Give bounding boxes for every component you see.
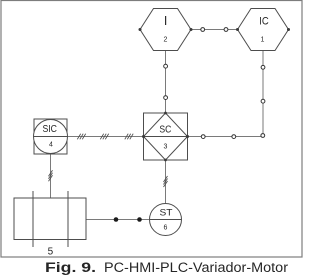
hexagon I (element 2): [140, 9, 191, 51]
svg-text:6: 6: [164, 225, 168, 232]
motor block (element 5): rectangle with two brush lines: [14, 191, 86, 247]
vertex dot bottom of SC diamond: [164, 159, 167, 162]
SC block (element 3): square with inscribed diamond: [144, 113, 188, 160]
hexagon IC (element 1): [238, 9, 289, 51]
svg-text:ST: ST: [160, 208, 173, 218]
svg-text:PC-HMI-PLC-Variador-Motor: PC-HMI-PLC-Variador-Motor: [104, 260, 289, 275]
wire SC bottom to ST top: [165, 160, 167, 204]
wire IC bottom down and left to SC right (L-shape): [188, 51, 264, 137]
node circle on SC right wire (left): [201, 135, 205, 139]
svg-text:3: 3: [164, 144, 168, 151]
svg-text:SC: SC: [159, 124, 171, 135]
vertex dot right of IC: [287, 28, 290, 31]
svg-text:SIC: SIC: [42, 124, 57, 135]
wire SIC bottom to motor top: [50, 154, 52, 198]
junction dot on motor-ST wire (right): [137, 217, 142, 222]
svg-text:4: 4: [49, 142, 53, 149]
svg-text:Fig. 9.: Fig. 9.: [45, 260, 96, 275]
vertex dot left of SC diamond: [142, 135, 145, 138]
wire I right to IC left (top horizontal): [191, 29, 238, 31]
vertex dot top of SC diamond: [164, 112, 167, 115]
node circle on I-SC wire (upper): [164, 64, 168, 68]
junction dot on motor-ST wire (left): [114, 217, 119, 222]
vertex dot left of I: [139, 28, 142, 31]
node circle on I-SC wire (lower): [164, 96, 168, 100]
node circle on top wire (left): [201, 28, 205, 32]
wire I bottom to SC top (vertical): [165, 51, 167, 114]
ST circle (element 6): [150, 204, 182, 236]
wire motor right to ST (with line through ST): [86, 219, 182, 221]
hatch on SIC-motor wire: [49, 170, 53, 181]
hatch group 3 on SIC-SC wire: [125, 134, 133, 140]
hatch group 2 on SIC-SC wire: [100, 134, 108, 140]
vertex dot right of SC diamond: [186, 135, 189, 138]
svg-text:2: 2: [164, 37, 168, 44]
node circle on top wire (right): [224, 28, 228, 32]
svg-text:I: I: [164, 14, 167, 28]
hatch group 1 on SIC-SC wire: [77, 134, 85, 140]
hatch on SC-ST wire: [164, 176, 168, 187]
node circle on IC wire (upper): [261, 65, 265, 69]
vertex dot right of I: [190, 28, 193, 31]
node circle on IC wire (lower): [261, 99, 265, 103]
SIC block (element 4): square with inscribed circle: [34, 119, 68, 154]
svg-text:1: 1: [261, 37, 265, 44]
wire SIC right to SC left: [68, 136, 144, 138]
node circle on SC right wire (right): [232, 135, 236, 139]
vertex dot left of IC: [236, 28, 239, 31]
node circle at wire corner: [261, 134, 265, 138]
svg-text:IC: IC: [259, 15, 269, 27]
svg-text:5: 5: [48, 247, 54, 258]
